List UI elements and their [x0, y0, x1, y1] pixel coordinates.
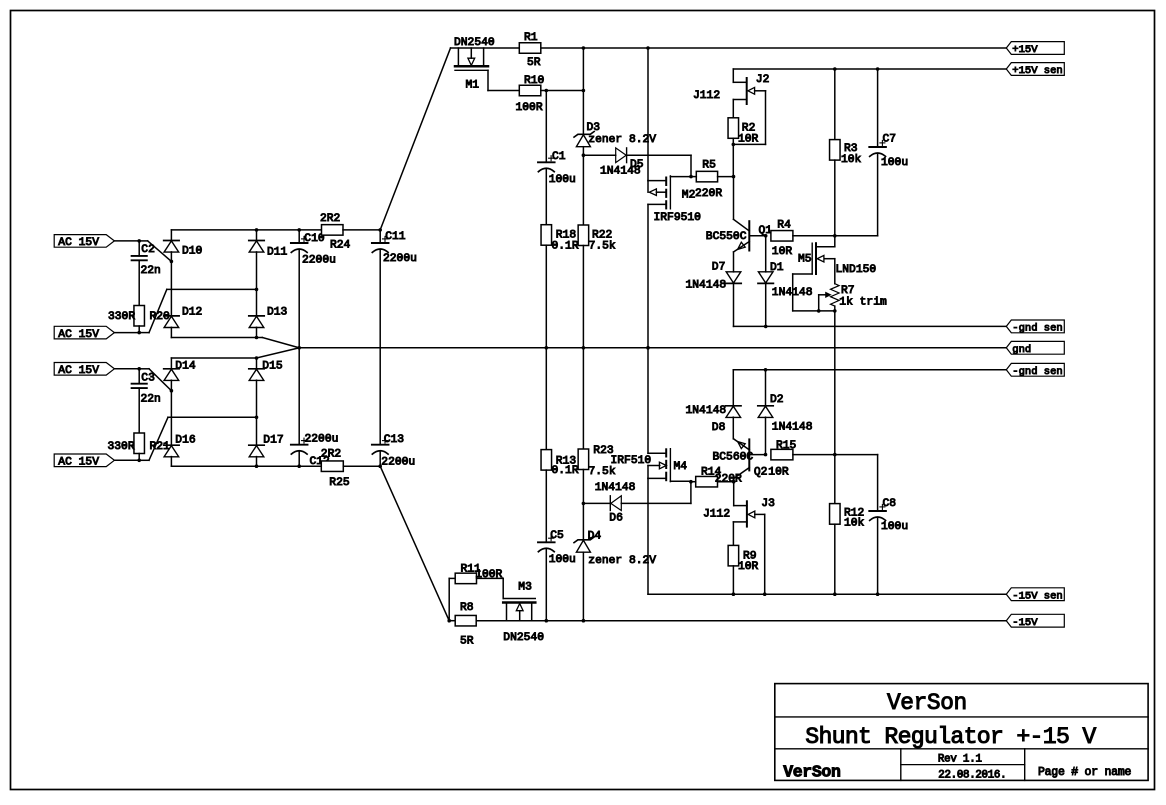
svg-text:1N4148: 1N4148: [686, 405, 727, 417]
svg-text:22n: 22n: [141, 265, 161, 277]
svg-text:AC 15V: AC 15V: [58, 457, 99, 469]
svg-text:10R: 10R: [772, 246, 793, 258]
svg-text:DN2540: DN2540: [503, 632, 544, 644]
svg-text:1N4148: 1N4148: [772, 421, 813, 433]
svg-text:R5: R5: [702, 160, 716, 172]
port -gnd sen (top): [1006, 320, 1064, 333]
node C7 top junction: [876, 67, 880, 71]
resistor R11 100R: [448, 578, 450, 620]
svg-text:2R2: 2R2: [321, 449, 341, 461]
node C8 bottom junction: [876, 592, 880, 596]
svg-text:22.08.2016.: 22.08.2016.: [938, 769, 1006, 781]
svg-text:D17: D17: [263, 434, 283, 446]
svg-text:Page # or name: Page # or name: [1038, 766, 1131, 779]
diode D11: [256, 230, 258, 241]
svg-text:C1: C1: [552, 151, 566, 163]
svg-text:C5: C5: [550, 530, 564, 542]
svg-text:-gnd sen: -gnd sen: [1012, 323, 1062, 335]
transistor M5 LND150: [834, 236, 836, 247]
svg-text:D1: D1: [770, 262, 784, 274]
capacitor C1 100u: [545, 91, 547, 163]
svg-text:R10: R10: [524, 75, 545, 87]
node R12 bottom junction: [833, 592, 837, 596]
port AC_15V (2): [54, 326, 114, 339]
svg-text:BC550C: BC550C: [706, 231, 747, 243]
svg-text:-15V: -15V: [1012, 617, 1038, 629]
resistor R4 10R: [771, 231, 793, 242]
resistor R18 0.1R: [541, 225, 552, 246]
capacitor C11 2200u: [378, 228, 382, 232]
svg-text:D14: D14: [175, 361, 196, 373]
port -gnd sen (bottom): [1006, 363, 1064, 376]
svg-text:2200u: 2200u: [302, 255, 336, 267]
svg-text:M4: M4: [674, 461, 688, 473]
diode D2 1N4148: [765, 370, 767, 406]
svg-text:D15: D15: [262, 361, 283, 373]
transistor J3 J112: [733, 482, 735, 506]
wire -15V rail: [476, 620, 1006, 622]
svg-text:100u: 100u: [881, 157, 908, 169]
svg-text:R25: R25: [329, 477, 350, 489]
resistor R20 330R: [134, 306, 145, 327]
svg-text:M2: M2: [682, 190, 696, 202]
node C13 junction: [378, 464, 382, 468]
svg-text:Shunt Regulator +-15 V: Shunt Regulator +-15 V: [805, 724, 1096, 750]
svg-text:R4: R4: [777, 220, 791, 232]
svg-text:BC560C: BC560C: [713, 452, 754, 464]
node D1 gnd-sen junction: [764, 325, 768, 329]
capacitor C3 22n: [138, 369, 140, 384]
svg-text:D6: D6: [609, 513, 623, 525]
node AC2-D11-D13 junction: [255, 288, 259, 292]
resistor R3 10k: [834, 69, 836, 140]
svg-text:IRF510: IRF510: [611, 455, 652, 467]
resistor R13 0.1R: [545, 348, 547, 450]
svg-text:R15: R15: [776, 440, 797, 452]
svg-text:Q2: Q2: [754, 467, 768, 479]
svg-text:10k: 10k: [841, 154, 862, 166]
resistor R9 10R: [728, 545, 739, 566]
capacitor C10 2200u: [298, 230, 300, 243]
svg-text:zener 8.2V: zener 8.2V: [588, 134, 656, 146]
diode D10: [170, 230, 172, 241]
svg-text:D8: D8: [712, 422, 726, 434]
wire -15V sen rail: [648, 593, 1006, 595]
port +15V: [1006, 42, 1064, 55]
svg-text:22n: 22n: [141, 394, 161, 406]
svg-text:10R: 10R: [738, 561, 759, 573]
svg-text:D3: D3: [587, 122, 601, 134]
svg-text:1N4148: 1N4148: [600, 166, 641, 178]
diode D6 1N4148: [583, 502, 610, 504]
svg-text:D13: D13: [267, 306, 288, 318]
svg-text:7.5k: 7.5k: [589, 466, 616, 478]
wire bridge2 AC4 path: [139, 459, 149, 461]
node R18 gnd junction: [545, 346, 549, 350]
svg-text:5R: 5R: [527, 57, 541, 69]
svg-text:C7: C7: [883, 134, 897, 146]
node R10 output junctions: [545, 89, 549, 93]
node R9/J3 gate junctions: [732, 592, 736, 596]
node M4 drain junction: [646, 346, 650, 350]
svg-text:220R: 220R: [695, 188, 722, 200]
diode D12: [164, 315, 179, 317]
node R22 gnd junction: [582, 346, 586, 350]
node R5/Q1 junction: [732, 175, 736, 179]
node D4 bottom junction: [582, 619, 586, 623]
wire D6 to R14/M4 gate: [690, 482, 692, 504]
port AC_15V (4): [54, 454, 114, 467]
resistor R15 10R: [771, 449, 793, 460]
svg-text:+15V sen: +15V sen: [1012, 65, 1062, 77]
node M2 source/drain dots: [646, 46, 650, 50]
diode D13: [249, 315, 264, 317]
svg-text:J112: J112: [693, 90, 720, 102]
resistor R8 5R: [455, 615, 476, 626]
capacitor C12 2200u: [298, 348, 300, 445]
node bridge2 dots: [255, 356, 259, 360]
port +15V sen: [1006, 63, 1064, 76]
svg-text:IRF9510: IRF9510: [654, 212, 702, 224]
svg-text:gnd: gnd: [1012, 344, 1031, 356]
svg-text:zener 8.2V: zener 8.2V: [588, 555, 656, 567]
svg-text:D16: D16: [175, 434, 196, 446]
svg-text:100u: 100u: [881, 521, 908, 533]
zener diode D4 8.2V: [582, 503, 584, 539]
node R4/R3/M5 junction: [833, 234, 837, 238]
title block frame: [775, 684, 1148, 781]
svg-text:M1: M1: [466, 79, 480, 91]
port -15V: [1006, 614, 1064, 627]
resistor R22 7.5k: [578, 225, 589, 246]
svg-text:10R: 10R: [738, 133, 759, 145]
wire R7 to lower section: [834, 311, 836, 455]
svg-text:LND150: LND150: [836, 264, 877, 276]
transistor J2 J112: [732, 69, 734, 82]
diode D1 1N4148: [765, 236, 767, 272]
node R2/J2 gate junction: [732, 143, 736, 147]
node R14/Q2/J3 junction: [732, 480, 736, 484]
wire diagonal C13 to M3: [380, 466, 449, 621]
svg-text:J2: J2: [756, 74, 770, 86]
node R3 top junction: [833, 67, 837, 71]
resistor R21 330R: [134, 433, 145, 454]
svg-text:5R: 5R: [460, 636, 474, 648]
svg-text:2200u: 2200u: [383, 253, 417, 265]
svg-text:AC 15V: AC 15V: [58, 329, 99, 341]
wire bridge1 AC1 diagonal: [139, 240, 148, 242]
capacitor C5 100u: [545, 470, 547, 542]
svg-text:100u: 100u: [549, 554, 576, 566]
svg-text:D10: D10: [182, 246, 203, 258]
svg-text:2200u: 2200u: [381, 457, 415, 469]
port AC_15V (1): [54, 235, 114, 248]
svg-text:-15V sen: -15V sen: [1012, 590, 1062, 602]
svg-text:C13: C13: [384, 434, 405, 446]
diode D16: [164, 444, 179, 446]
wire bridge2 AC3 diagonal: [139, 368, 149, 370]
node D6 branch junction: [582, 502, 586, 506]
node AC1-D10-D12 junction: [170, 260, 174, 264]
diode D5 1N4148: [583, 154, 615, 156]
svg-text:C11: C11: [385, 231, 406, 243]
node Q2 base junction: [764, 453, 768, 457]
node C5 bottom junction: [545, 619, 549, 623]
svg-text:100R: 100R: [475, 569, 502, 581]
node AC4-D15-D17 junction: [255, 416, 259, 420]
capacitor C8 100u: [877, 455, 879, 511]
svg-text:R20: R20: [150, 311, 171, 323]
svg-text:7.5k: 7.5k: [589, 240, 616, 252]
node D5 branch junction: [582, 153, 586, 157]
wire D5 to R5/M2 gate: [690, 155, 692, 176]
resistor R25 2R2: [321, 461, 343, 472]
svg-text:D2: D2: [770, 394, 784, 406]
svg-text:D7: D7: [712, 262, 726, 274]
wire bridge1 AC2 path: [139, 332, 149, 334]
svg-text:1N4148: 1N4148: [686, 280, 727, 292]
svg-text:R8: R8: [460, 602, 474, 614]
diode D14: [170, 358, 172, 369]
svg-text:1k trim: 1k trim: [839, 297, 887, 309]
diode D15: [256, 358, 258, 369]
svg-text:D4: D4: [588, 531, 602, 543]
transistor M4 IRF510: [647, 348, 649, 454]
svg-text:Rev 1.1: Rev 1.1: [938, 753, 982, 765]
node bridge1 dots: [255, 228, 259, 232]
diode D8 1N4148: [732, 370, 734, 406]
wire bridge1 top rail: [171, 229, 321, 231]
svg-text:C8: C8: [883, 498, 897, 510]
wire gnd rail: [299, 347, 1006, 349]
wire +15V rail: [451, 47, 1007, 49]
svg-text:C3: C3: [141, 373, 155, 385]
svg-text:10R: 10R: [768, 467, 789, 479]
svg-text:330R: 330R: [108, 311, 135, 323]
svg-text:VerSon: VerSon: [887, 690, 967, 716]
port AC_15V (3): [54, 363, 114, 376]
svg-text:100R: 100R: [516, 102, 543, 114]
capacitor C2 22n: [138, 241, 140, 256]
wire bridge1 bottom rail: [171, 337, 262, 339]
wire +15V sen rail: [733, 68, 1006, 70]
resistor R23 7.5k: [582, 348, 584, 449]
resistor R10 100R: [519, 85, 541, 96]
zener diode D3 8.2V: [582, 48, 584, 134]
svg-text:100u: 100u: [549, 174, 576, 186]
capacitor C13 2200u: [372, 444, 389, 446]
transistor M2 IRF9510: [647, 48, 649, 181]
resistor R1 5R: [519, 43, 541, 54]
wire diagonal C11 to M1: [380, 48, 450, 230]
svg-text:0.1R: 0.1R: [552, 240, 579, 252]
resistor R14 220R: [696, 476, 718, 487]
svg-text:1N4148: 1N4148: [595, 482, 636, 494]
port gnd: [1006, 341, 1064, 354]
svg-text:+15V: +15V: [1012, 44, 1038, 56]
capacitor C7 100u: [877, 69, 879, 147]
diode D7 1N4148: [726, 282, 741, 284]
node M3 input junction: [447, 619, 451, 623]
svg-text:2200u: 2200u: [305, 434, 339, 446]
wire -gnd sen rail (top): [734, 325, 1007, 327]
svg-text:M3: M3: [518, 582, 532, 594]
node Q1 base junction: [764, 234, 768, 238]
svg-text:J3: J3: [761, 498, 775, 510]
svg-text:0.1R: 0.1R: [552, 465, 579, 477]
node gnd center junction: [297, 346, 301, 350]
svg-text:R7: R7: [841, 285, 855, 297]
svg-text:10k: 10k: [844, 518, 865, 530]
diode D17: [249, 444, 264, 446]
svg-text:DN2540: DN2540: [454, 37, 495, 49]
potentiometer R7 1k trim: [831, 284, 840, 306]
transistor M1 DN2540: [457, 48, 459, 66]
svg-text:D12: D12: [182, 306, 202, 318]
svg-text:M5: M5: [798, 254, 812, 266]
resistor R2 10R: [728, 118, 739, 139]
node R7 junctions: [817, 309, 821, 313]
resistor R5 220R: [696, 171, 717, 182]
resistor R24 2R2: [322, 225, 344, 236]
port -15V sen: [1006, 588, 1064, 601]
node AC junction dots: [137, 239, 141, 243]
wire -gnd sen rail (bottom): [733, 369, 1006, 371]
svg-text:D11: D11: [267, 246, 288, 258]
node R15/R12 junction: [833, 453, 837, 457]
svg-text:2R2: 2R2: [320, 213, 340, 225]
transistor M3 DN2540: [502, 578, 504, 598]
svg-text:AC 15V: AC 15V: [58, 237, 99, 249]
wire bridge2 bottom rail: [171, 465, 321, 467]
svg-text:AC 15V: AC 15V: [58, 365, 99, 377]
svg-text:330R: 330R: [108, 441, 135, 453]
svg-text:VerSon: VerSon: [783, 762, 840, 781]
svg-text:R24: R24: [330, 240, 351, 252]
transistor Q1 BC550C: [733, 177, 735, 220]
svg-text:R1: R1: [524, 32, 538, 44]
wire bridge2 top rail: [171, 357, 256, 359]
svg-text:-gnd sen: -gnd sen: [1012, 366, 1062, 378]
svg-text:220R: 220R: [715, 474, 742, 486]
svg-text:J112: J112: [703, 509, 730, 521]
transistor Q2 BC560C: [734, 439, 750, 450]
resistor R12 10k: [834, 455, 836, 504]
node D2 gnd-sen junction: [764, 368, 768, 372]
node AC3-D14-D16 junction: [170, 389, 174, 393]
